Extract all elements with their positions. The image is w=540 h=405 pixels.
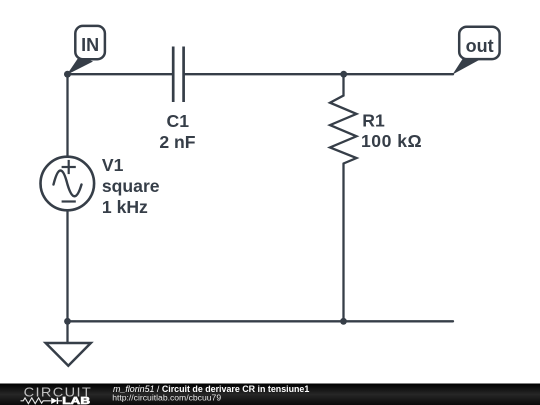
ground [46, 343, 91, 366]
node: junction dot at R1 bottom [340, 318, 347, 325]
V1 plus sign [62, 160, 76, 174]
svg-text:out: out [466, 36, 494, 56]
voltage source V1 circle [41, 157, 95, 211]
wire: IN node to C1 left plate [68, 73, 173, 75]
wire: IN node down to V1 top [66, 74, 68, 156]
node IN flag tail [67, 56, 93, 75]
svg-text:C1: C1 [167, 111, 190, 131]
svg-text:square: square [102, 176, 160, 196]
node: junction dot at R1 top [340, 71, 347, 78]
svg-text:1 kHz: 1 kHz [102, 197, 148, 217]
svg-text:http://circuitlab.com/cbcuu79: http://circuitlab.com/cbcuu79 [112, 393, 221, 403]
node out flag tail [453, 58, 481, 75]
svg-text:V1: V1 [102, 155, 124, 175]
svg-text:R1: R1 [362, 111, 385, 131]
node out flag box [459, 27, 499, 59]
svg-text:2 nF: 2 nF [159, 132, 195, 152]
wire: bottom rail [68, 320, 454, 322]
svg-text:IN: IN [81, 35, 99, 55]
V1 sine wave [54, 171, 82, 197]
wire: V1 bottom to ground node [66, 210, 68, 321]
logo diode [51, 398, 57, 404]
wire: ground stem [66, 321, 68, 343]
node IN flag box [75, 26, 105, 59]
resistor R1 [330, 74, 357, 163]
svg-text:100 kΩ: 100 kΩ [361, 131, 422, 151]
node IN junction dot [64, 71, 71, 78]
wire: R1 bottom to bottom rail [342, 164, 344, 322]
logo resistor zigzag [21, 398, 51, 404]
svg-text:LAB: LAB [62, 395, 90, 405]
V1 minus sign [62, 200, 76, 202]
wire: C1 right plate to out end [185, 73, 453, 75]
node: junction dot at ground rail [64, 318, 71, 325]
capacitor C1 plates [173, 47, 183, 103]
